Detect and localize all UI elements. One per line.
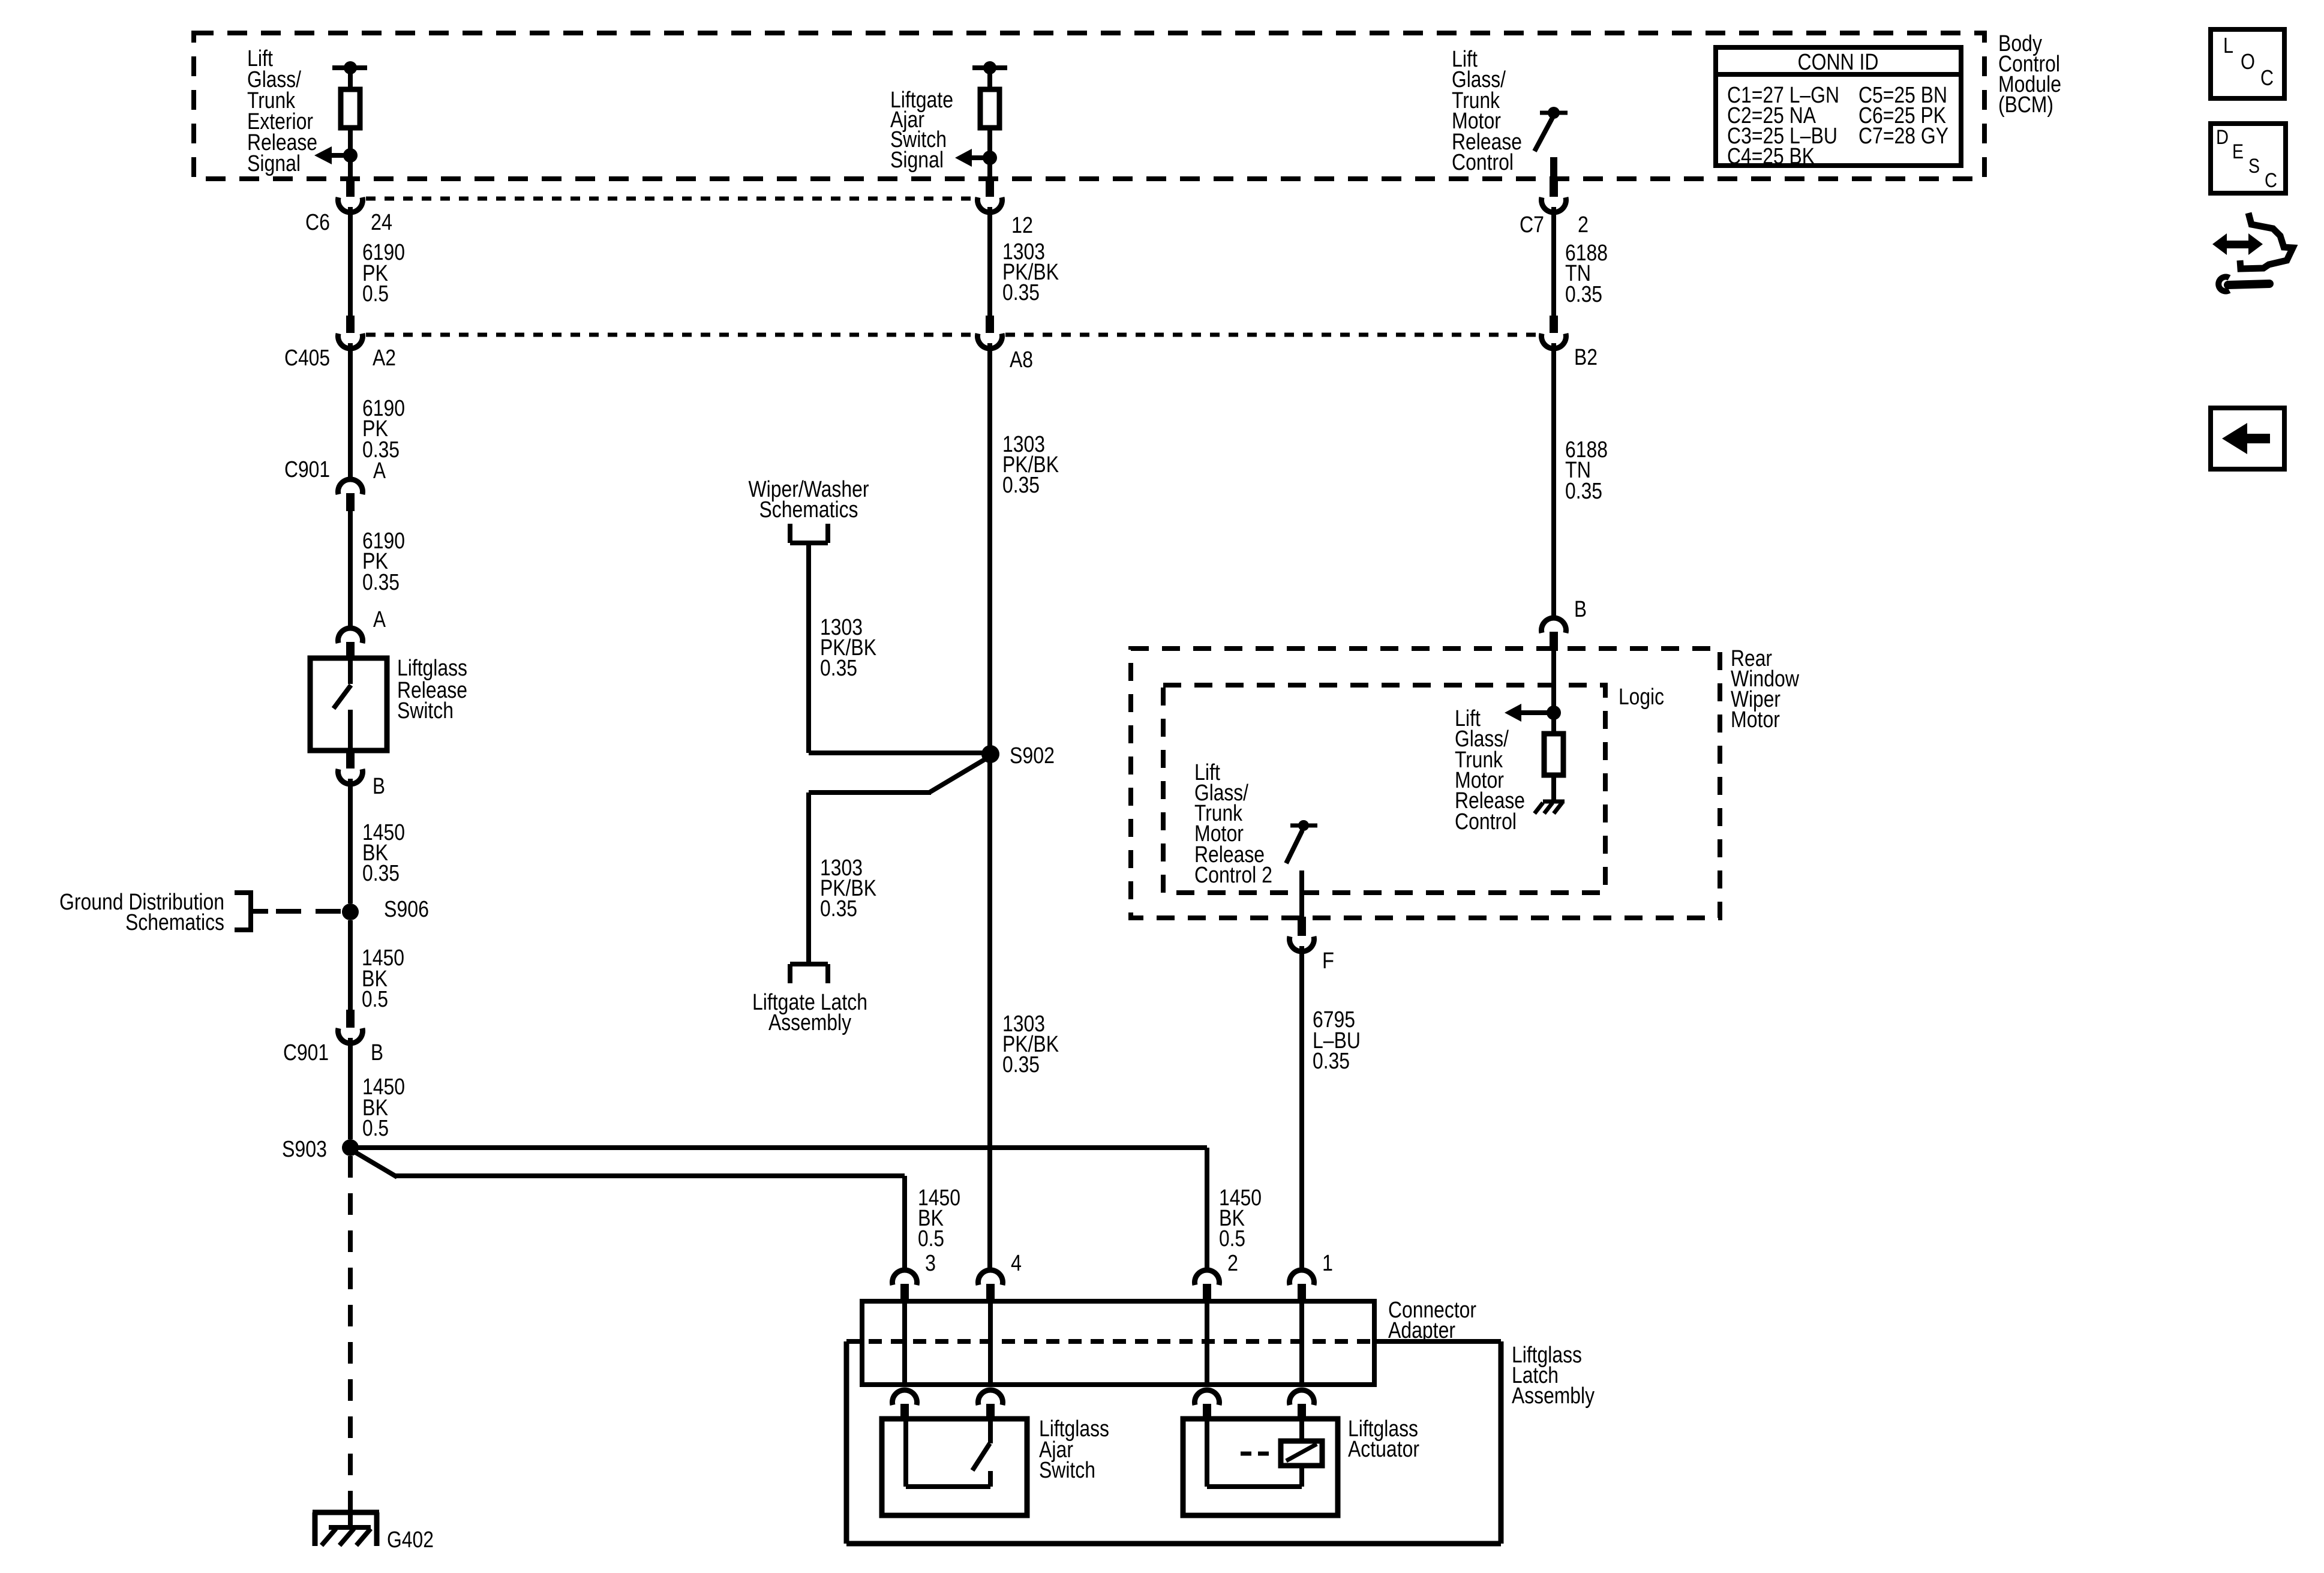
off-page bracket to wiper/washer schematics — [788, 524, 792, 543]
svg-text:Liftglass: Liftglass — [397, 656, 467, 681]
actuator internal wire — [1205, 1419, 1209, 1487]
svg-text:S902: S902 — [1010, 743, 1055, 769]
latch connector arc — [1194, 1390, 1219, 1405]
svg-text:A: A — [373, 607, 386, 632]
pin stub B — [1550, 632, 1558, 651]
svg-text:C4=25 BK: C4=25 BK — [1727, 144, 1815, 169]
svg-text:A2: A2 — [373, 346, 396, 371]
service icon double arrow — [2212, 233, 2227, 255]
wire 1450 BK 0.35 — [348, 779, 353, 903]
connector pin 4 arc — [978, 1270, 1003, 1285]
svg-text:C901: C901 — [283, 1040, 329, 1065]
svg-text:E: E — [2232, 140, 2244, 163]
svg-text:B: B — [371, 1040, 383, 1065]
wire to internal ground — [1551, 775, 1556, 801]
back arrow — [2222, 423, 2247, 454]
Rear Window Wiper Motor dashed box — [1131, 649, 1720, 918]
svg-text:Switch: Switch — [397, 698, 454, 724]
connector B arc at rear wiper motor — [1541, 618, 1566, 633]
wire from wiper/washer bracket down to S902 branch — [806, 543, 811, 753]
resistor in logic box — [1544, 734, 1563, 775]
internal ground symbol — [1543, 800, 1565, 804]
svg-text:C6: C6 — [305, 210, 330, 235]
svg-text:Control: Control — [1452, 150, 1514, 175]
liftglass release switch S box — [310, 658, 387, 751]
svg-text:0.35: 0.35 — [1002, 473, 1040, 498]
wire from control-2 switch down — [1299, 870, 1304, 918]
actuator solenoid — [1281, 1441, 1322, 1466]
svg-text:Control: Control — [1455, 809, 1517, 834]
svg-text:0.5: 0.5 — [362, 281, 389, 307]
switch contact wire inside box — [348, 658, 353, 684]
Logic dashed box — [1163, 685, 1605, 893]
wire S902 diagonal branch to liftgate latch assembly — [929, 757, 989, 792]
node with arrow (Signal) — [983, 151, 997, 165]
connector pin 1 arc — [1290, 1270, 1314, 1285]
svg-text:Signal: Signal — [247, 151, 301, 176]
wire into logic — [1551, 651, 1556, 734]
pin stub C6-24 — [346, 179, 355, 197]
svg-text:Logic: Logic — [1619, 685, 1664, 710]
pin stub C7-2 — [1550, 179, 1558, 197]
Liftglass Ajar Switch box — [882, 1419, 1027, 1515]
wire 6190 PK 0.35 — [348, 343, 353, 478]
svg-text:C: C — [2260, 65, 2274, 90]
svg-text:F: F — [1322, 948, 1334, 974]
resistor in BCM ajar switch branch — [980, 89, 999, 128]
pin stub C405-A2 — [346, 316, 355, 333]
splice S906 — [342, 903, 359, 920]
svg-text:0.5: 0.5 — [362, 987, 388, 1012]
svg-text:Assembly: Assembly — [1512, 1383, 1595, 1409]
DESC icon box — [2211, 124, 2286, 193]
back arrow icon box — [2211, 408, 2284, 469]
wire S903 branch to pin 3 — [352, 1150, 397, 1177]
pin stub F — [1298, 917, 1306, 936]
connector terminal 12 arc — [977, 197, 1002, 212]
latch connector arc — [1290, 1390, 1314, 1405]
latch pin stub — [986, 1404, 995, 1419]
svg-text:C7=28 GY: C7=28 GY — [1858, 124, 1948, 149]
wire 6190 PK 0.35 — [348, 511, 353, 628]
latch connector arc — [893, 1390, 917, 1405]
wire — [348, 68, 353, 89]
svg-text:S903: S903 — [282, 1137, 327, 1162]
svg-text:0.35: 0.35 — [1565, 479, 1602, 504]
svg-text:2: 2 — [1227, 1251, 1238, 1276]
resistor in BCM exterior release branch — [341, 89, 360, 128]
svg-text:0.5: 0.5 — [918, 1226, 944, 1251]
svg-text:B: B — [1574, 597, 1587, 622]
connector F arc — [1290, 936, 1314, 951]
connector pin 2 arc — [1194, 1270, 1219, 1285]
ground distribution bracket — [248, 890, 253, 932]
Liftglass Latch Assembly box dashed top edge — [846, 1339, 1374, 1344]
svg-text:0.35: 0.35 — [820, 896, 857, 921]
svg-text:0.35: 0.35 — [1002, 1052, 1040, 1077]
wire 6795 L-BU 0.35 down to pin 1 — [1299, 946, 1304, 1268]
latch pin stub — [900, 1404, 909, 1419]
svg-text:A8: A8 — [1010, 347, 1033, 373]
svg-text:(BCM): (BCM) — [1998, 92, 2053, 118]
wire 6188 TN 0.35 — [1551, 207, 1556, 316]
service icon wrench — [2218, 277, 2229, 292]
ground G402 symbol — [313, 1510, 379, 1515]
svg-text:0.35: 0.35 — [362, 570, 400, 595]
switch lower contact — [348, 710, 353, 751]
wire — [987, 128, 992, 179]
svg-text:A: A — [373, 458, 386, 484]
node with arrow (Signal) — [343, 148, 358, 163]
wire S902 branch horizontal — [809, 751, 990, 755]
svg-text:C7: C7 — [1520, 212, 1544, 238]
svg-text:L: L — [2223, 33, 2233, 58]
connector terminal B2 arc — [1541, 334, 1566, 349]
svg-text:S906: S906 — [384, 897, 429, 922]
pin stub 3 — [900, 1284, 909, 1301]
Liftglass Actuator box — [1183, 1419, 1338, 1515]
pin stub C901-A — [346, 493, 355, 511]
ajar switch blade — [988, 1419, 993, 1443]
node bar at top of exterior-release branch — [332, 65, 367, 70]
pin stub A8 — [986, 316, 994, 333]
connector C901 terminal A arc — [338, 479, 362, 494]
svg-text:0.35: 0.35 — [1002, 280, 1040, 305]
svg-text:0.35: 0.35 — [1313, 1049, 1350, 1074]
switch symbol in BCM motor release branch — [1540, 111, 1568, 115]
Liftglass Latch Assembly box — [844, 1341, 849, 1544]
connector C7 terminal 2 arc — [1541, 197, 1566, 212]
wire 1450 BK 0.5 — [348, 920, 353, 1010]
svg-text:Assembly: Assembly — [768, 1010, 851, 1035]
svg-text:Control 2: Control 2 — [1194, 863, 1272, 888]
svg-text:C: C — [2265, 169, 2277, 192]
svg-text:0.35: 0.35 — [820, 656, 857, 681]
svg-text:24: 24 — [371, 210, 392, 235]
svg-text:Signal: Signal — [890, 148, 944, 173]
connector C405 terminal A2 arc — [338, 334, 362, 349]
wire 1303 PK/BK 0.35 — [987, 207, 992, 316]
pin stub A — [346, 642, 355, 658]
actuator dashed link — [1241, 1452, 1269, 1456]
wire 6190 PK 0.5 — [348, 207, 353, 316]
pin stub 4 — [986, 1284, 995, 1301]
svg-text:B2: B2 — [1574, 345, 1598, 370]
pin stub B2 — [1550, 316, 1558, 333]
svg-text:O: O — [2241, 49, 2255, 74]
connector row dashed line C405 A2 to A8 — [366, 333, 974, 337]
pin stub C901-B — [346, 1010, 355, 1028]
wires through connector adapter — [902, 1301, 907, 1385]
connector row dashed line C6 to 12 — [366, 197, 974, 201]
wire 6188 TN 0.35 down to rear wiper motor — [1551, 343, 1556, 617]
pin stub 2 — [1203, 1284, 1211, 1301]
connector A arc above liftglass release switch — [338, 628, 362, 643]
connector B arc below switch — [338, 769, 362, 784]
Body Control Module (BCM) dashed box — [194, 33, 1984, 179]
pin stub 12 — [986, 179, 994, 197]
svg-text:C901: C901 — [284, 457, 330, 482]
dashed wire S903 to ground G402 — [348, 1156, 353, 1495]
svg-text:0.35: 0.35 — [1565, 282, 1602, 307]
svg-text:3: 3 — [925, 1251, 936, 1276]
LOC icon box — [2211, 29, 2284, 98]
svg-text:Actuator: Actuator — [1348, 1437, 1419, 1462]
wire 1303 PK/BK 0.35 from S902 down to pin 4 — [987, 754, 992, 1268]
svg-text:12: 12 — [1011, 213, 1033, 238]
node with arrow (motor release control) — [1547, 706, 1561, 720]
switch symbol motor release control 2 — [1290, 824, 1317, 828]
wire 1450 BK 0.5 — [348, 1038, 353, 1139]
latch connector arc — [978, 1390, 1003, 1405]
svg-text:Motor: Motor — [1731, 707, 1780, 733]
svg-text:4: 4 — [1011, 1251, 1022, 1276]
wire — [348, 128, 353, 179]
connector C901 terminal B arc — [338, 1028, 362, 1043]
svg-text:1: 1 — [1322, 1251, 1333, 1276]
connector C6 terminal 24 arc — [338, 197, 362, 212]
latch pin stub — [1203, 1404, 1211, 1419]
wire S903 branch to pin 2 — [350, 1145, 1207, 1150]
off-page bracket to liftgate latch assembly — [790, 962, 828, 966]
splice S903 — [342, 1139, 359, 1156]
pin stub 1 — [1298, 1284, 1306, 1301]
connector row dashed line A8 to B2 — [1005, 333, 1537, 337]
svg-text:G402: G402 — [387, 1527, 434, 1553]
CONN ID table — [1716, 47, 1961, 166]
service icon car outline — [2240, 213, 2293, 269]
svg-text:D: D — [2216, 126, 2229, 149]
latch pin stub — [1298, 1404, 1306, 1419]
ajar switch internal conductor — [903, 1419, 908, 1487]
splice S902 — [981, 745, 999, 763]
Connector Adapter box — [862, 1301, 1374, 1385]
switch blade — [334, 685, 351, 709]
svg-text:CONN ID: CONN ID — [1798, 50, 1879, 75]
node bar at top of ajar switch branch — [972, 65, 1007, 70]
svg-text:0.5: 0.5 — [362, 1116, 389, 1141]
connector pin 3 arc — [893, 1270, 917, 1285]
connector terminal A8 arc — [977, 334, 1002, 349]
svg-text:0.5: 0.5 — [1219, 1226, 1245, 1251]
svg-text:S: S — [2248, 155, 2260, 178]
svg-text:Switch: Switch — [1039, 1458, 1095, 1483]
wire — [987, 68, 992, 89]
svg-text:Schematics: Schematics — [759, 497, 858, 523]
dashed leader to S906 — [276, 909, 345, 914]
wire pin 1 to solenoid — [1299, 1419, 1304, 1441]
svg-text:0.35: 0.35 — [362, 861, 400, 886]
wire 1303 PK/BK 0.35 down to S902 — [987, 343, 992, 746]
svg-text:B: B — [373, 774, 385, 799]
pin stub B below switch — [346, 752, 355, 769]
svg-text:C405: C405 — [284, 346, 330, 371]
svg-text:Schematics: Schematics — [125, 910, 224, 935]
svg-text:2: 2 — [1578, 212, 1589, 238]
